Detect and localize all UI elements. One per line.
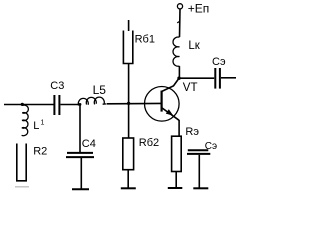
wire C3 to node (61, 104, 81, 106)
svg-text:Cэ: Cэ (205, 141, 217, 152)
ground C4 (72, 188, 89, 190)
wire R62 bottom (127, 170, 129, 189)
wire R61 top (128, 20, 130, 31)
capacitor C3 (54, 95, 59, 115)
wire emitter down (178, 120, 180, 136)
transistor VT collector (162, 78, 179, 91)
wire terminal to Lk (179, 9, 182, 37)
svg-text:R2: R2 (33, 145, 47, 157)
svg-text:VT: VT (183, 82, 198, 94)
wire L5 to base (107, 102, 161, 104)
wire Cout right (221, 77, 236, 79)
wire C4 bottom (80, 158, 82, 189)
node collector junction (177, 77, 180, 80)
wire Re bottom (175, 172, 177, 188)
transistor VT emitter arrow (166, 109, 174, 116)
svg-text:Rэ: Rэ (185, 126, 199, 138)
inductor L5 (78, 97, 106, 105)
capacitor C4 (66, 153, 94, 157)
wire junction to R62 (128, 103, 130, 138)
inductor L1 (22, 105, 29, 136)
terminal +Ep (177, 4, 182, 9)
transistor VT emitter (162, 108, 180, 121)
ground faint under R2 (15, 186, 29, 188)
svg-text:C3: C3 (50, 80, 64, 92)
capacitor Cout (215, 68, 220, 89)
svg-text:+Еп: +Еп (188, 1, 210, 15)
inductor Lk (173, 37, 179, 66)
svg-text:C4: C4 (82, 138, 96, 150)
node base divider junction (127, 102, 130, 105)
svg-text:Lк: Lк (188, 40, 200, 52)
transistor VT circle (145, 87, 180, 122)
svg-text:Cэ: Cэ (212, 56, 226, 68)
wire collector to Cout (179, 77, 214, 79)
resistor R61 (123, 31, 132, 64)
svg-text:Rб2: Rб2 (139, 137, 159, 149)
node C4/L5 junction (79, 103, 82, 106)
wire input left (4, 104, 54, 106)
resistor R62 (123, 138, 134, 170)
svg-text:1: 1 (41, 119, 45, 126)
transistor VT base bar (161, 91, 163, 112)
capacitor C4 wire top (79, 105, 81, 153)
node L1 junction (21, 103, 24, 106)
resistor Re (172, 136, 182, 171)
svg-text:Rб1: Rб1 (135, 33, 155, 45)
wire R61 bottom to junction (128, 64, 130, 104)
capacitor Ce plates (187, 150, 210, 154)
tick on supply wire (177, 21, 179, 23)
ground R62 (121, 187, 136, 189)
svg-text:L5: L5 (93, 83, 107, 97)
ground Ce (193, 187, 208, 189)
ground Re (168, 187, 183, 189)
wire Ce bottom (198, 155, 200, 188)
resistor R2 (17, 144, 26, 181)
wire Lk to collector junction (178, 66, 180, 78)
svg-text:L: L (33, 120, 39, 132)
